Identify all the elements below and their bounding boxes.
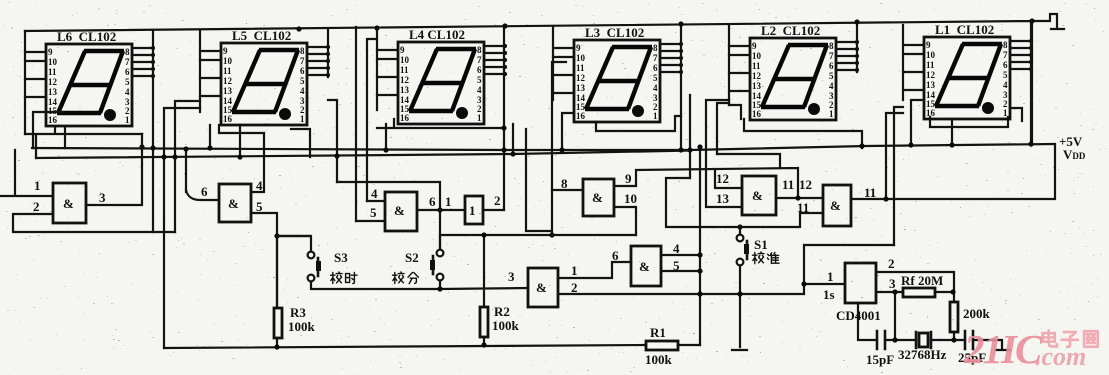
svg-text:200k: 200k [963, 306, 991, 321]
svg-text:2: 2 [571, 280, 578, 295]
svg-text:L6 CL102: L6 CL102 [57, 29, 116, 44]
svg-text:3: 3 [889, 276, 896, 291]
svg-text:R2: R2 [494, 304, 510, 319]
svg-text:L5 CL102: L5 CL102 [232, 28, 291, 43]
svg-text:5: 5 [673, 258, 680, 273]
svg-text:5: 5 [370, 205, 377, 220]
svg-text:11: 11 [864, 185, 876, 200]
svg-text:4: 4 [673, 241, 680, 256]
svg-text:R1: R1 [650, 325, 666, 340]
svg-text:6: 6 [429, 194, 436, 209]
svg-text:3: 3 [508, 269, 515, 284]
svg-text:L2 CL102: L2 CL102 [761, 23, 820, 38]
svg-text:21IC: 21IC [963, 326, 1043, 372]
svg-text:&: & [830, 198, 841, 213]
svg-text:5: 5 [256, 199, 263, 214]
svg-text:&: & [536, 280, 547, 295]
svg-text:100k: 100k [288, 319, 316, 334]
svg-text:&: & [394, 203, 405, 218]
svg-text:1: 1 [34, 178, 41, 193]
svg-text:2: 2 [33, 199, 40, 214]
svg-text:100k: 100k [492, 318, 520, 333]
svg-text:11: 11 [782, 177, 794, 192]
svg-text:11: 11 [797, 200, 809, 215]
svg-text:Rf 20M: Rf 20M [901, 273, 943, 288]
svg-text:&: & [639, 259, 650, 274]
svg-text:12: 12 [716, 171, 729, 186]
svg-text:&: & [752, 188, 763, 203]
svg-text:4: 4 [256, 178, 263, 193]
svg-text:2: 2 [494, 193, 501, 208]
svg-text:&: & [63, 196, 74, 211]
svg-text:S2: S2 [405, 250, 419, 265]
svg-text:S3: S3 [334, 250, 348, 265]
svg-text:100k: 100k [645, 352, 673, 367]
svg-text:1s: 1s [823, 287, 835, 302]
svg-text:32768Hz: 32768Hz [898, 347, 947, 362]
svg-text:6: 6 [201, 184, 208, 199]
svg-text:12: 12 [799, 177, 812, 192]
svg-text:1: 1 [445, 194, 452, 209]
svg-text:10: 10 [624, 191, 637, 206]
svg-text:4: 4 [371, 186, 378, 201]
svg-text:.com: .com [1035, 342, 1086, 371]
svg-text:1: 1 [469, 203, 476, 218]
svg-text:15pF: 15pF [866, 352, 894, 367]
svg-text:8: 8 [561, 176, 568, 191]
svg-text:9: 9 [625, 171, 632, 186]
svg-text:1: 1 [571, 263, 578, 278]
svg-text:3: 3 [99, 190, 106, 205]
svg-text:2: 2 [888, 256, 895, 271]
svg-text:L3 CL102: L3 CL102 [585, 25, 644, 40]
svg-text:R3: R3 [290, 305, 306, 320]
svg-text:L1 CL102: L1 CL102 [935, 22, 994, 37]
svg-text:&: & [228, 196, 239, 211]
svg-text:13: 13 [716, 191, 730, 206]
svg-text:S1: S1 [754, 237, 768, 252]
svg-text:6: 6 [612, 248, 619, 263]
svg-text:L4 CL102: L4 CL102 [409, 27, 465, 42]
svg-text:1: 1 [827, 269, 834, 284]
svg-text:&: & [592, 190, 603, 205]
